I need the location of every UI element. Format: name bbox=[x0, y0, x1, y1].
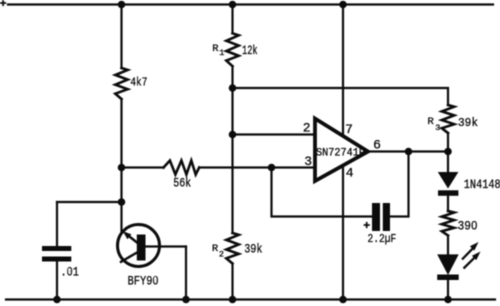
svg-text:39k: 39k bbox=[458, 116, 478, 130]
svg-text:7: 7 bbox=[345, 122, 353, 137]
svg-text:6: 6 bbox=[373, 138, 381, 153]
svg-text:2: 2 bbox=[303, 121, 311, 136]
svg-text:12k: 12k bbox=[242, 43, 258, 58]
svg-text:2: 2 bbox=[219, 250, 224, 260]
svg-text:SN72741P: SN72741P bbox=[316, 148, 365, 160]
svg-text:3: 3 bbox=[435, 123, 440, 133]
svg-text:3: 3 bbox=[304, 154, 312, 169]
svg-text:56k: 56k bbox=[173, 176, 191, 191]
svg-text:R: R bbox=[428, 116, 435, 128]
svg-text:1N4148: 1N4148 bbox=[464, 177, 500, 192]
svg-text:R: R bbox=[212, 243, 219, 255]
svg-text:1: 1 bbox=[219, 48, 224, 58]
svg-text:4: 4 bbox=[346, 166, 354, 181]
svg-text:2.2µF: 2.2µF bbox=[368, 232, 397, 246]
svg-text:BFY90: BFY90 bbox=[128, 273, 159, 288]
svg-text:39k: 39k bbox=[244, 241, 263, 256]
svg-text:R: R bbox=[212, 43, 219, 55]
svg-text:4k7: 4k7 bbox=[130, 77, 147, 90]
